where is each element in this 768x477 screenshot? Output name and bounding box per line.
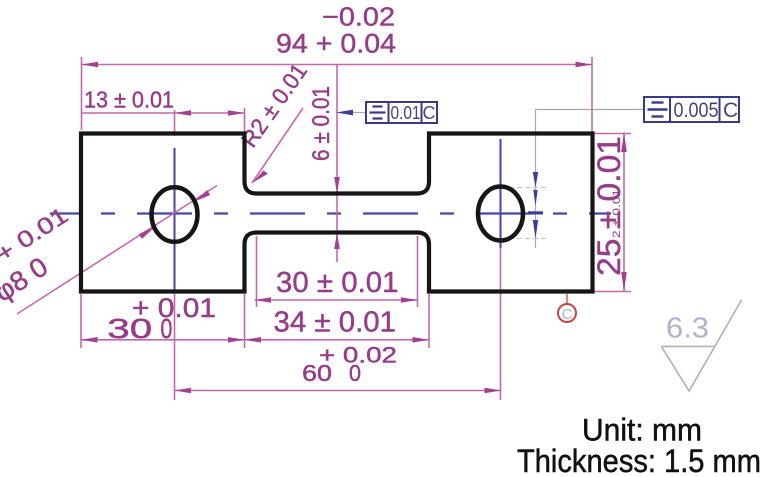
datum C circle (red) xyxy=(558,304,576,322)
30 narrow dim extension line left (fillet tangent) xyxy=(256,236,258,307)
svg-text:0: 0 xyxy=(160,313,172,344)
34 left arrow at 244.5 xyxy=(245,337,262,343)
94 dim arrow right xyxy=(576,62,593,68)
phi8 arrow upper-right (points toward hole center) xyxy=(195,190,211,201)
25 dim line xyxy=(623,133,625,292)
svg-text:30: 30 xyxy=(107,313,152,344)
6 dim line vertical xyxy=(336,65,338,263)
25 dim: top extension line xyxy=(594,133,631,135)
30 narrow dim extension line right (fillet tangent) xyxy=(417,236,419,307)
30 right arrow at 244.5 xyxy=(228,337,245,343)
vertical centerline right hole (blue) xyxy=(500,139,502,248)
13 dim: extension line at step xyxy=(244,108,246,132)
13 dim arrow right xyxy=(228,110,245,116)
30 narrow right arrow xyxy=(401,297,418,303)
30/34 shared dim line xyxy=(81,339,429,341)
datum C leader line (red) xyxy=(566,294,568,304)
R2 leader arrow xyxy=(252,171,268,184)
hole height dim blue arrow upper (points down, tip at top tangent) xyxy=(533,172,538,188)
FCF1 blue arrow xyxy=(336,110,353,116)
extension line x=174.5 below part to 60-dim (magenta) xyxy=(174,292,176,400)
part outline xyxy=(81,134,593,292)
leader line for FCF1 (gray) xyxy=(352,112,366,114)
hole height dim blue arrow lower (points down, tip at bottom tangent) xyxy=(533,220,538,239)
30 (left block) dim extension line at x=81 xyxy=(80,294,82,348)
30 left arrow xyxy=(81,337,98,343)
94 dim line xyxy=(82,64,593,66)
R2 leader line xyxy=(252,108,303,183)
right hole xyxy=(478,187,523,241)
hole height dim blue taper upper-mid (points down) xyxy=(533,190,537,206)
phi8 dim text (rotated stack) xyxy=(0,202,91,308)
6 dim arrow lower (points up at narrow bottom) xyxy=(334,233,340,250)
60 dim line xyxy=(175,390,502,392)
13 dim arrow left xyxy=(175,110,192,116)
svg-text:6.3: 6.3 xyxy=(666,313,709,345)
94 dim arrow left xyxy=(82,62,99,68)
svg-text:Thickness: 1.5 mm: Thickness: 1.5 mm xyxy=(517,443,761,477)
extension line x=500.5 below part to 60-dim (magenta) xyxy=(500,248,502,400)
phi8 arrow lower-left (points toward hole center) xyxy=(139,228,155,239)
surface finish symbol xyxy=(661,300,741,391)
svg-text:−0.02: −0.02 xyxy=(322,2,395,32)
6 dim arrow upper (points down at narrow top) xyxy=(334,177,340,194)
horizontal centerline (dash-dot blue) xyxy=(50,212,611,214)
34 dim extension line at x=244.5 xyxy=(244,294,246,348)
30 narrow dim line xyxy=(255,299,418,301)
FCF1 box xyxy=(366,102,437,123)
hole height dim blue dash on centerline xyxy=(528,211,543,214)
svg-text:C: C xyxy=(423,103,436,123)
34 right arrow xyxy=(413,337,430,343)
svg-text:13 ± 0.01: 13 ± 0.01 xyxy=(84,86,174,112)
svg-text:C: C xyxy=(562,307,572,323)
phi8 leader line xyxy=(17,186,217,315)
svg-text:94 + 0.04: 94 + 0.04 xyxy=(276,29,396,59)
svg-text:0.005: 0.005 xyxy=(674,99,719,122)
30 narrow left arrow xyxy=(255,297,272,303)
svg-text:60: 60 xyxy=(302,360,332,386)
34 dim extension line at x=429 xyxy=(428,294,430,348)
svg-text:0.01: 0.01 xyxy=(391,103,421,123)
60 dim arrow right xyxy=(485,388,502,394)
FCF2 symmetry symbol xyxy=(648,103,668,117)
leader line for FCF2 (gray, left then down into part) xyxy=(536,110,645,249)
svg-text:30 ± 0.01: 30 ± 0.01 xyxy=(276,267,399,299)
25 dim arrow up xyxy=(621,133,627,153)
svg-text:6 ± 0.01: 6 ± 0.01 xyxy=(308,86,335,161)
FCF2 box xyxy=(644,97,739,122)
svg-text:2 ± 0.01: 2 ± 0.01 xyxy=(611,189,623,238)
13 dim line xyxy=(82,112,245,114)
hole tangent dashed line top (right hole) xyxy=(509,187,547,189)
left hole xyxy=(152,187,198,242)
svg-text:34 ± 0.01: 34 ± 0.01 xyxy=(274,307,397,339)
94 dim: left extension line xyxy=(81,57,83,130)
60 dim arrow left xyxy=(175,388,192,394)
svg-text:0: 0 xyxy=(349,360,361,386)
svg-text:C: C xyxy=(723,99,738,122)
FCF1 symmetry symbol xyxy=(370,107,386,119)
25 dim arrow down xyxy=(621,272,627,292)
25 dim: bottom extension line xyxy=(594,291,631,293)
vertical centerline left hole (blue) xyxy=(174,148,176,292)
hole tangent dashed line bottom (right hole) xyxy=(509,238,547,240)
94 dim: right extension line xyxy=(591,57,593,132)
extension line x=174.5 above part (magenta) xyxy=(174,110,176,136)
